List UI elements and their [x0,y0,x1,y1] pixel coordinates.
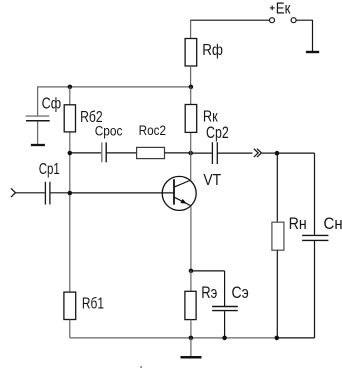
transistor VT base bar [173,179,175,204]
transistor VT circle [162,176,196,210]
wire: Cpoc to Roc2 [107,152,137,154]
resistor Re [185,291,196,319]
svg-text:VT: VT [203,171,221,189]
wire: lead below Rk to collector node [190,132,192,153]
transistor VT collector stroke [174,180,191,187]
wire: +Ek top feed from Rf to terminal [190,19,269,21]
wire: upper horizontal rail y=87 [37,86,191,88]
wire: Re top lead [190,271,192,292]
wire: Cf bottom lead [37,121,39,143]
capacitor Ce [212,307,238,311]
wire: Cn top lead [314,153,316,235]
svg-text:Rф: Rф [202,42,223,59]
node at Rb2 top [68,85,73,90]
wire: lead above Rf [190,20,192,39]
wire: collector node to Cp2 [191,152,212,154]
resistor Rb2 [64,105,75,132]
wire: Rb1 bottom lead [69,320,71,338]
wire: output node to Cn corner [277,152,315,154]
ground (Cf) [31,144,45,146]
svg-text:Ср1: Ср1 [39,159,60,177]
wire: Cn bottom lead to ground rail [277,241,315,338]
transistor VT emitter arrowhead [180,199,187,204]
wire: left rail x=70 (Rb2 leads and down to Rb1) [69,87,71,292]
wire: base net y=153 to Cpoc [70,152,101,154]
wire: Ce bottom lead [224,311,226,338]
node output (277,153) [275,151,280,156]
capacitor Cn [302,235,328,240]
terminal circle right of +Ek gap [291,18,296,23]
node ground at emitter branch [189,336,194,341]
svg-text:Ср2: Ср2 [206,124,229,142]
node base net (70,193) [68,191,73,196]
node emitter (191,271) [189,269,194,274]
transistor VT emitter stroke [174,197,191,206]
svg-text:Ек: Ек [276,0,291,17]
wire: Rn bottom lead [276,250,278,338]
capacitor Cf [26,116,50,121]
terminal circle left of +Ek gap [270,18,275,23]
wire: Cp2 to output arrow [218,152,253,154]
wire: bottom ground rail [70,337,277,339]
label +Ek plus sign [270,6,275,11]
node at base net left (70,153) [68,151,73,156]
node collector (190.5,153) [188,151,193,156]
resistor Rk [185,105,197,133]
wire: Cf top lead [37,87,39,116]
svg-text:Сэ: Сэ [232,284,249,302]
input chevron [11,188,16,197]
wire: main ground lead [190,338,192,356]
wire: Re bottom lead [190,320,192,338]
capacitor Cp1 [45,182,50,205]
wire: Roc2 to collector node [165,152,191,154]
wire: lead from node 87 to Rk [190,87,192,105]
wire: lead below Rf to node [190,66,192,87]
wire: emitter rail down to node [190,206,192,271]
ground (main) [181,356,202,359]
capacitor Cp2 [212,142,217,164]
output arrow (double chevron) [254,149,262,157]
wire: collector rail above transistor [190,153,192,180]
wire: Rn top lead [276,153,278,222]
stray caption dot [140,366,142,368]
svg-text:Rк: Rк [203,108,218,126]
wire: Cp1 to base node [51,192,70,194]
svg-text:Rн: Rн [289,215,307,233]
capacitor Cpoc [102,142,106,162]
wire: emitter node to Ce branch [191,271,225,306]
node ground at Rn branch [275,336,280,341]
wire: base wire to transistor [70,192,174,194]
node at Rf/Rk junction [189,85,194,90]
svg-text:Сн: Сн [324,215,342,233]
svg-text:Rэ: Rэ [201,285,217,303]
wire: arrow to output node [262,152,277,154]
resistor Rb1 [64,292,76,319]
resistor Rf [185,39,197,67]
ground (Ek supply) [306,51,319,53]
resistor Roc2 [137,147,165,158]
resistor Rn [272,222,284,250]
wire: from right terminal to ground [296,20,313,51]
svg-text:Rб1: Rб1 [82,294,104,312]
svg-text:Сф: Сф [42,95,62,113]
svg-text:Срос: Срос [95,123,123,139]
wire: input to Cp1 [16,192,45,194]
node ground at Ce branch [222,336,227,341]
svg-text:Roc2: Roc2 [139,123,166,138]
